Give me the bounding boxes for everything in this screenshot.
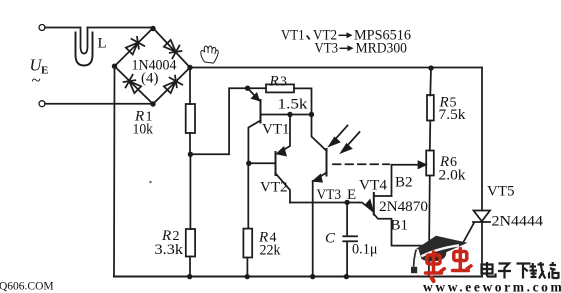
wire left vertex down to bottom rail: [113, 66, 116, 276]
wiper arrow into R6: [392, 162, 426, 196]
resistor R1 10k: [189, 68, 191, 105]
lamp L outer envelope: [76, 33, 93, 66]
node R1/R2 junction: [188, 152, 193, 157]
diode D1 top-left: [124, 35, 145, 56]
svg-text:VT3: VT3: [315, 41, 339, 57]
node R2 bottom on rail: [187, 274, 192, 279]
light arrow 1: [329, 126, 347, 146]
svg-text:E: E: [41, 65, 48, 77]
terminal top-left: [39, 25, 45, 31]
svg-text:3.3k: 3.3k: [155, 242, 184, 258]
char zi: [498, 264, 511, 279]
resistor R2 3.3k: [189, 154, 191, 229]
node R3 right / VT3 collector: [309, 112, 314, 117]
wire right vertex to top rail: [190, 67, 482, 69]
node VT3 emitter on rail: [310, 274, 315, 279]
svg-text:1.5k: 1.5k: [278, 97, 309, 113]
transistor VT2: [249, 115, 290, 203]
wire bottom AC to bridge bottom vertex: [45, 103, 153, 105]
node R5 top: [428, 65, 433, 70]
svg-text:VT2: VT2: [260, 180, 288, 196]
svg-text:VT1: VT1: [281, 28, 305, 44]
char xia: [517, 264, 531, 279]
char zhan: [549, 262, 559, 279]
char dian: [482, 262, 496, 277]
char zai: [530, 262, 546, 279]
node A R1/R3/VT1 emitter: [245, 86, 250, 91]
node bridge left vertex: [112, 63, 117, 68]
dashed link VT3 to R6: [333, 163, 389, 165]
svg-text:3: 3: [280, 75, 287, 90]
wire top rail down right side to VT5 anode: [481, 68, 483, 211]
wire node A to R3: [248, 87, 266, 89]
wire top AC right to bridge: [88, 27, 154, 30]
hand cursor: [200, 45, 219, 63]
SCR VT5 2N4444: [473, 211, 490, 277]
node VT2 base / R4: [246, 161, 251, 166]
wire R1/R2 junction to node A: [190, 88, 247, 154]
svg-text:MRD300: MRD300: [356, 41, 408, 57]
node bridge bottom vertex: [150, 101, 155, 106]
resistor R4 22k: [247, 163, 249, 228]
svg-text:B2: B2: [395, 175, 413, 191]
svg-text:VT5: VT5: [487, 184, 515, 200]
node VT1 base / VT2 emitter: [287, 112, 292, 117]
base line VT1: [261, 114, 312, 116]
svg-text:VT3: VT3: [317, 187, 342, 203]
watermark graduation cap: [411, 236, 468, 273]
svg-text:VT1: VT1: [262, 122, 290, 138]
svg-text:www.eeworm.com: www.eeworm.com: [423, 280, 561, 293]
watermark text dianzi xiazaizhan: [482, 262, 559, 279]
svg-text:7.5k: 7.5k: [439, 107, 467, 123]
node bridge top vertex: [150, 26, 155, 31]
UJT VT4 2N4870: [359, 193, 475, 246]
svg-text:C: C: [325, 231, 336, 247]
light arrow 2: [341, 132, 359, 152]
resistor R5 7.5k: [429, 68, 432, 95]
svg-text:2N4444: 2N4444: [492, 214, 544, 230]
phototransistor VT3: [312, 115, 327, 277]
diode D3 bottom-left: [122, 74, 143, 95]
resistor R6 2.0k potentiometer: [426, 151, 434, 176]
lamp L inner filament: [81, 28, 88, 54]
resistor R3 1.5k: [266, 84, 294, 92]
wire top AC left: [45, 27, 80, 29]
bridge rectifier sides: [115, 28, 191, 104]
svg-text:L: L: [98, 36, 107, 52]
node bridge right vertex DC+: [187, 65, 192, 70]
diode D4 bottom-right: [162, 74, 183, 95]
svg-text:Q606.COM: Q606.COM: [0, 281, 54, 293]
terminal bottom-left: [39, 101, 45, 107]
svg-text:E: E: [347, 187, 356, 203]
wire VT2 collector to VT4 emitter: [290, 202, 359, 204]
capacitor C 0.1u: [343, 202, 357, 276]
node C bottom on rail: [344, 274, 349, 279]
diode D2 top-right: [162, 38, 183, 59]
transistor VT1: [248, 89, 260, 163]
svg-text:(4): (4): [141, 71, 159, 87]
bottom rail: [114, 275, 482, 277]
svg-text:~: ~: [32, 71, 41, 90]
watermark bug characters: [426, 249, 472, 282]
svg-text:2N4870: 2N4870: [379, 199, 428, 215]
svg-text:2.0k: 2.0k: [439, 168, 467, 184]
svg-text:0.1μ: 0.1μ: [352, 242, 378, 258]
svg-text:B1: B1: [391, 218, 409, 234]
node R4 bottom on rail: [245, 274, 250, 279]
svg-text:10k: 10k: [133, 122, 154, 138]
svg-text:22k: 22k: [260, 243, 281, 259]
svg-text:R: R: [269, 74, 279, 90]
svg-text:VT4: VT4: [359, 178, 388, 194]
node C top / VT4 emitter wire: [344, 200, 349, 205]
stray ink speck: [149, 181, 151, 183]
